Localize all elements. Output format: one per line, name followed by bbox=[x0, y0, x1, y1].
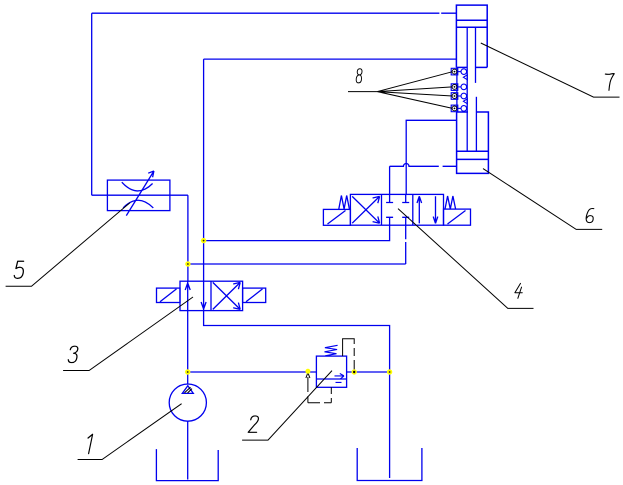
cylinder 6 (lower) bbox=[457, 97, 489, 174]
wire: valve3 bottom-left to pump bbox=[187, 311, 189, 384]
label 3 bbox=[68, 346, 78, 362]
label 2 leader bbox=[242, 371, 332, 441]
valve 4 left square crossed arrows bbox=[352, 196, 379, 223]
valve 4 middle square blocked ports bbox=[386, 194, 409, 225]
nozzle unit row2 bbox=[451, 84, 466, 91]
valve 4 right square arrows bbox=[417, 196, 438, 223]
relief valve 2 pilot line bbox=[343, 339, 356, 374]
label 7 bbox=[605, 74, 614, 91]
wire: relief valve output to tank line bbox=[347, 371, 390, 373]
cylinder 7 (upper) bbox=[456, 5, 487, 151]
relief valve 2 bbox=[316, 356, 346, 387]
valve 4 right spring bbox=[445, 196, 456, 209]
valve 3 right solenoid box bbox=[243, 288, 266, 302]
junction dot E (354.2,372) bbox=[352, 369, 357, 374]
pump P1 bbox=[169, 384, 206, 421]
wire: valve4 top-left port to cylinder6 bottom port (hop over crossing) bbox=[390, 164, 457, 195]
label 6 leader bbox=[483, 169, 602, 230]
label 2 bbox=[248, 416, 258, 432]
wire: branch to valve4 bottom-left port bbox=[204, 225, 390, 240]
junction dot F (389.6,372) bbox=[387, 369, 392, 374]
wire: pump suction to tank bbox=[187, 421, 189, 479]
junction dot C (187.7,372) bbox=[185, 369, 190, 374]
label 5 leader bbox=[6, 203, 130, 287]
valve 3 left square through arrows bbox=[185, 281, 206, 310]
tank right bbox=[357, 448, 422, 481]
relief valve 2 spring bbox=[325, 345, 338, 356]
wire: pump branch to relief valve input bbox=[188, 371, 317, 373]
tank under pump bbox=[156, 449, 218, 481]
throttle valve 5 bbox=[107, 171, 169, 216]
valve 3 right square crossed arrows bbox=[213, 282, 240, 309]
label 8 bbox=[356, 69, 362, 83]
label 4 bbox=[515, 283, 522, 298]
valve 4 body bbox=[350, 194, 443, 225]
wire: vertical throttle to valve3 top-left port bbox=[187, 195, 189, 281]
valve 4 left solenoid box bbox=[323, 209, 350, 225]
wire: throttle through-line bbox=[92, 194, 188, 196]
nozzle unit row1 bbox=[451, 68, 466, 75]
valve 4 right solenoid box bbox=[444, 209, 471, 225]
valve 3 body bbox=[180, 281, 243, 310]
junction dot A (203.6,240.6) bbox=[201, 238, 206, 243]
wire top: cylinder7 top port line bbox=[92, 12, 457, 14]
relief valve 2 drain line bbox=[306, 373, 331, 403]
wire: branch to valve4 bottom-right port (with crossing break) bbox=[188, 225, 406, 264]
label 1 bbox=[88, 434, 93, 453]
label 5 bbox=[14, 261, 23, 278]
wire: valve4 top-right port to cylinder6 upper port bbox=[406, 120, 456, 194]
label 7 leader bbox=[481, 43, 620, 97]
wire: cylinder7 bottom port line bbox=[204, 59, 457, 281]
label 1 leader bbox=[78, 404, 182, 460]
nozzle triangle 2 bbox=[463, 99, 467, 104]
label 8 leader fan bbox=[348, 72, 453, 109]
nozzle triangle 1 bbox=[463, 75, 467, 80]
label 6 bbox=[586, 209, 594, 223]
nozzle mounting line bbox=[456, 67, 458, 112]
junction dot D (307.9,372) bbox=[305, 369, 310, 374]
label 4 leader bbox=[398, 209, 534, 309]
label 3 leader bbox=[63, 297, 193, 371]
junction dot B (187.9,264) bbox=[185, 261, 190, 266]
wire: valve3 bottom-right to tank line bbox=[204, 311, 390, 478]
valve 4 left spring bbox=[339, 196, 350, 210]
nozzle unit row3 bbox=[451, 93, 466, 100]
nozzle unit row4 bbox=[451, 105, 466, 112]
valve 3 left solenoid box bbox=[157, 288, 181, 302]
wire: left vertical from top wire down to throttle bbox=[91, 13, 93, 195]
